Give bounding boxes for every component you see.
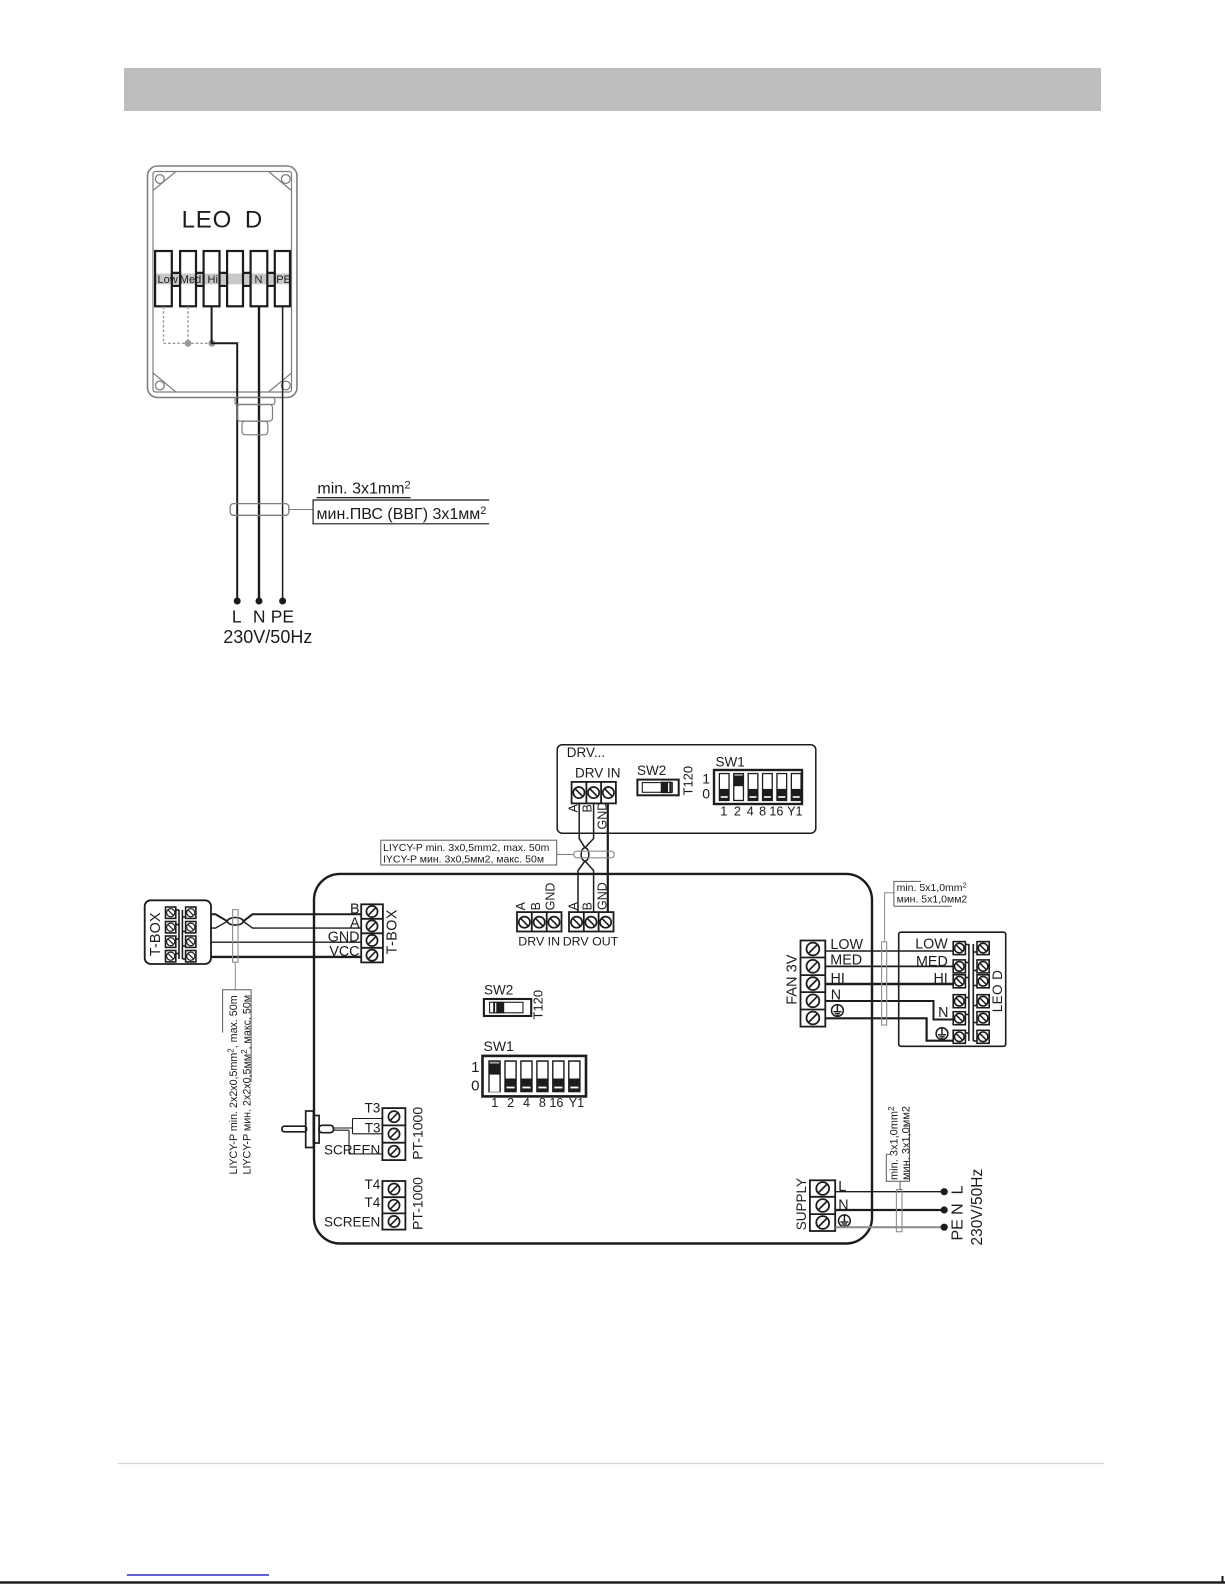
svg-text:PT-1000: PT-1000 (410, 1107, 426, 1160)
svg-text:L: L (838, 1179, 846, 1195)
svg-text:T3: T3 (365, 1100, 381, 1115)
svg-text:N: N (253, 606, 266, 626)
svg-text:0: 0 (471, 1078, 479, 1095)
svg-text:LEO D: LEO D (182, 207, 263, 234)
svg-text:8: 8 (759, 804, 766, 818)
svg-text:LIYCY-P min. 3x0,5mm2, max.: LIYCY-P min. 3x0,5mm2, max. 50m (383, 842, 550, 854)
svg-text:16: 16 (769, 804, 783, 818)
svg-text:A: A (567, 804, 581, 813)
svg-text:HI: HI (933, 971, 947, 987)
svg-text:IYCY-P мин. 3x0,5мм2, макс.: IYCY-P мин. 3x0,5мм2, макс. 50м (383, 853, 544, 865)
svg-text:N: N (255, 274, 263, 286)
svg-text:A: A (567, 901, 581, 910)
svg-text:GND: GND (544, 883, 558, 911)
svg-text:T-BOX: T-BOX (148, 912, 164, 956)
svg-text:Low: Low (158, 274, 178, 286)
svg-text:SW2: SW2 (637, 763, 666, 778)
svg-text:SCREEN: SCREEN (324, 1142, 380, 1157)
svg-text:LIYCY-P мин. 2x2x0,5мм2, макс.: LIYCY-P мин. 2x2x0,5мм2, макс. 50м (240, 995, 254, 1175)
svg-text:LOW: LOW (915, 937, 948, 953)
svg-text:DRV...: DRV... (567, 745, 605, 760)
svg-text:N: N (938, 1005, 948, 1021)
svg-text:LIYCY-P min. 2x2x0,5mm2, max.: LIYCY-P min. 2x2x0,5mm2, max. 50m (226, 995, 240, 1174)
svg-text:DRV OUT: DRV OUT (563, 935, 619, 949)
svg-text:0: 0 (702, 786, 710, 802)
svg-text:LEO D: LEO D (990, 970, 1005, 1013)
svg-text:SW1: SW1 (716, 755, 745, 770)
svg-text:230V/50Hz: 230V/50Hz (223, 627, 312, 647)
svg-text:SW2: SW2 (484, 983, 513, 998)
svg-text:min. 5x1,0mm2: min. 5x1,0mm2 (897, 881, 967, 895)
svg-text:1: 1 (702, 771, 710, 787)
svg-text:N: N (949, 1203, 966, 1215)
svg-text:GND: GND (596, 882, 610, 910)
svg-text:PE: PE (949, 1219, 966, 1240)
svg-text:мин. 3x1,0мм2: мин. 3x1,0мм2 (901, 1106, 913, 1180)
svg-text:min. 3x1mm2: min. 3x1mm2 (317, 480, 410, 498)
svg-text:PT-1000: PT-1000 (410, 1177, 426, 1230)
svg-text:Hi: Hi (208, 274, 218, 286)
svg-text:SUPPLY: SUPPLY (794, 1178, 809, 1230)
svg-text:L: L (232, 606, 242, 626)
svg-text:B: B (580, 902, 594, 910)
svg-text:1: 1 (720, 804, 727, 818)
svg-text:16: 16 (549, 1096, 563, 1110)
svg-text:min. 3x1,0mm2: min. 3x1,0mm2 (887, 1106, 901, 1180)
svg-text:Y1: Y1 (787, 804, 802, 818)
svg-text:DRV IN: DRV IN (575, 766, 621, 781)
svg-text:1: 1 (491, 1096, 498, 1110)
svg-text:1: 1 (471, 1059, 479, 1076)
svg-text:B: B (580, 804, 594, 812)
svg-text:L: L (949, 1185, 966, 1194)
svg-text:B: B (529, 902, 543, 910)
svg-text:PE: PE (271, 606, 294, 626)
svg-text:Y1: Y1 (569, 1096, 584, 1110)
svg-text:мин. 5x1,0мм2: мин. 5x1,0мм2 (897, 894, 968, 906)
svg-text:230V/50Hz: 230V/50Hz (969, 1169, 986, 1246)
svg-text:2: 2 (507, 1096, 514, 1110)
svg-text:4: 4 (747, 804, 754, 818)
svg-text:Med: Med (180, 274, 201, 286)
svg-text:T120: T120 (681, 766, 696, 796)
svg-text:T120: T120 (531, 990, 546, 1020)
svg-text:4: 4 (523, 1096, 530, 1110)
svg-text:T4: T4 (365, 1195, 381, 1210)
svg-text:2: 2 (734, 804, 741, 818)
svg-text:SW1: SW1 (484, 1038, 515, 1054)
svg-text:T-BOX: T-BOX (385, 909, 401, 954)
svg-text:A: A (514, 901, 528, 910)
svg-text:мин.ПВС (ВВГ) 3x1мм2: мин.ПВС (ВВГ) 3x1мм2 (317, 505, 487, 523)
svg-text:PE: PE (276, 274, 291, 286)
svg-text:DRV IN: DRV IN (518, 935, 560, 949)
svg-text:MED: MED (916, 954, 948, 970)
svg-text:FAN 3V: FAN 3V (784, 954, 800, 1005)
svg-text:T4: T4 (365, 1177, 381, 1192)
svg-text:8: 8 (539, 1096, 546, 1110)
svg-text:SCREEN: SCREEN (324, 1214, 380, 1229)
